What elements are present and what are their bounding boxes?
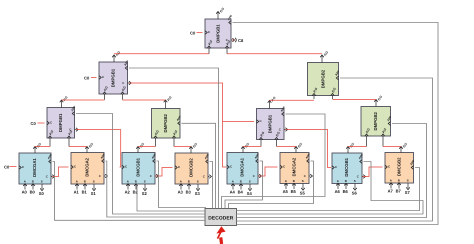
svg-text:B: B xyxy=(398,178,400,182)
svg-text:DMCGB1: DMCGB1 xyxy=(136,157,141,176)
svg-text:A1: A1 xyxy=(74,190,80,195)
svg-text:S4: S4 xyxy=(247,191,253,196)
wire APP decoder to U9 xyxy=(76,114,205,215)
wire Cout b0 to Cin b1 xyxy=(52,167,68,177)
svg-text:B: B xyxy=(135,179,137,183)
svg-text:C0: C0 xyxy=(4,165,10,170)
svg-text:DMCGB1: DMCGB1 xyxy=(344,157,349,176)
svg-text:S3: S3 xyxy=(195,191,201,196)
svg-text:DMCGA1: DMCGA1 xyxy=(240,157,245,176)
svg-text:C0: C0 xyxy=(84,76,90,81)
wire PG b7 to U12 xyxy=(383,146,401,148)
svg-text:B7: B7 xyxy=(396,189,402,194)
svg-text:S2: S2 xyxy=(142,191,148,196)
svg-text:A6: A6 xyxy=(335,189,341,194)
svg-text:A3: A3 xyxy=(178,190,184,195)
svg-text:B: B xyxy=(345,179,347,183)
wire APP decoder to b2 xyxy=(157,161,207,208)
wire C6 from U11 to b6 xyxy=(285,130,331,168)
svg-text:DMPGB1: DMPGB1 xyxy=(268,114,273,133)
wire APP decoder to b7 xyxy=(237,168,420,211)
svg-text:S: S xyxy=(41,179,43,183)
svg-text:B0: B0 xyxy=(30,190,36,195)
wire PG b3 to U10 xyxy=(174,146,191,148)
svg-text:DMCGA2: DMCGA2 xyxy=(85,157,90,176)
wire PG U10 to U13 xyxy=(123,99,166,101)
svg-text:DMPGB1: DMPGB1 xyxy=(58,113,63,132)
svg-text:A4: A4 xyxy=(230,190,236,195)
block U12 DMPGB2 xyxy=(361,94,393,146)
svg-text:S6: S6 xyxy=(352,190,358,195)
block U10 DMPGB2 xyxy=(152,95,183,147)
wire C2 from U9 to b2 xyxy=(76,130,121,167)
svg-text:S: S xyxy=(197,179,199,183)
wire PG b2 to U10 xyxy=(138,146,156,148)
svg-text:B5: B5 xyxy=(291,189,297,194)
svg-text:DMCGB2: DMCGB2 xyxy=(189,158,194,177)
cell U7 DMCGB1 xyxy=(332,142,365,196)
svg-text:DMPGB2: DMPGB2 xyxy=(163,113,168,132)
svg-text:B: B xyxy=(32,179,34,183)
wire PG U12 to U14 xyxy=(333,99,377,101)
decoder U16 xyxy=(205,209,237,226)
decoder enable red arrow xyxy=(216,226,225,244)
svg-text:DMCGB2: DMCGB2 xyxy=(396,157,401,176)
svg-text:C8: C8 xyxy=(238,38,244,43)
wire PG U11 to U14 xyxy=(270,99,315,101)
svg-text:B: B xyxy=(240,179,242,183)
wire APP decoder to U13 xyxy=(129,68,219,209)
wire S2 tap to decoder xyxy=(137,185,205,212)
svg-text:DMCGA1: DMCGA1 xyxy=(32,158,37,177)
svg-text:S: S xyxy=(249,179,251,183)
wire APP decoder to U10 xyxy=(182,123,216,208)
svg-text:B3: B3 xyxy=(186,190,192,195)
svg-text:B: B xyxy=(84,179,86,183)
wire PG b1 to U9 xyxy=(69,146,87,148)
svg-text:C0: C0 xyxy=(31,121,37,126)
wire Cout b2 to Cin b3 xyxy=(155,168,172,177)
cell U8 DMCGB2 xyxy=(385,142,416,195)
svg-text:DECODER: DECODER xyxy=(208,216,234,222)
cell U2 DMCGA2 xyxy=(71,142,107,196)
wire APP decoder to b6 xyxy=(237,162,424,215)
output C8 from U15 xyxy=(232,39,234,41)
svg-text:B6: B6 xyxy=(343,189,349,194)
wire C4 from U13 to b4 and U11 xyxy=(129,83,226,167)
wire PG U14 to U15 xyxy=(227,53,322,55)
wire APP decoder to b4 xyxy=(225,161,263,209)
svg-text:DMPGB1: DMPGB1 xyxy=(215,24,220,43)
svg-text:A7: A7 xyxy=(388,189,394,194)
svg-text:B2: B2 xyxy=(133,190,139,195)
svg-text:S: S xyxy=(407,178,409,182)
svg-text:A0: A0 xyxy=(22,190,28,195)
svg-text:B: B xyxy=(188,179,190,183)
wire APP decoder to b5 xyxy=(229,161,314,209)
svg-text:S1: S1 xyxy=(91,191,97,196)
wire APP decoder to U14 xyxy=(237,78,433,221)
wire PG U9 to U13 xyxy=(62,99,105,101)
svg-text:S7: S7 xyxy=(405,190,411,195)
cell U6 DMCGA2 xyxy=(280,142,312,196)
svg-text:S5: S5 xyxy=(300,190,306,195)
cell U1 DMCGA1 xyxy=(19,142,54,196)
svg-text:S0: S0 xyxy=(39,191,45,196)
svg-text:S: S xyxy=(354,179,356,183)
wire PG b5 to U11 xyxy=(277,146,297,148)
svg-text:DMPGB2: DMPGB2 xyxy=(320,69,325,88)
svg-text:DMCGA2: DMCGA2 xyxy=(292,157,297,176)
wire Cout b6 to Cin b7 xyxy=(362,167,382,177)
cell U4 DMCGB2 xyxy=(175,142,211,196)
wire PG b6 to U12 xyxy=(348,146,367,148)
svg-text:C0: C0 xyxy=(190,31,196,36)
svg-text:DMPGB2: DMPGB2 xyxy=(373,111,378,130)
svg-text:S: S xyxy=(93,179,95,183)
block U13 DMPGB1 xyxy=(99,50,131,100)
wire PG b0 to U9 xyxy=(35,146,50,148)
block U14 DMPGB2 xyxy=(308,50,341,99)
cell U5 DMCGA1 xyxy=(227,142,261,196)
wire APP decoder to U11 xyxy=(222,114,326,209)
svg-text:B4: B4 xyxy=(238,190,244,195)
block U9 DMPGB1 xyxy=(47,95,78,147)
svg-text:A5: A5 xyxy=(283,189,289,194)
wire PG U13 to U15 xyxy=(114,53,209,55)
svg-text:S: S xyxy=(302,179,304,183)
wire APP decoder to U15 root xyxy=(233,23,439,225)
svg-text:A2: A2 xyxy=(125,190,131,195)
svg-text:B: B xyxy=(293,179,295,183)
wire PG b4 to U11 xyxy=(243,146,261,148)
wire APP decoder to b3 xyxy=(210,162,213,209)
wire APP decoder to U12 xyxy=(237,124,427,218)
wire APP decoder to b1 xyxy=(106,161,206,217)
wire Cout b4 to Cin b5 xyxy=(258,167,277,176)
block U15 DMPGB1 xyxy=(205,6,235,53)
cell U3 DMCGB1 xyxy=(122,142,158,196)
svg-text:DMPGB1: DMPGB1 xyxy=(111,68,116,87)
svg-text:S: S xyxy=(144,179,146,183)
block U11 DMPGB1 xyxy=(257,95,288,146)
wire APP decoder to b0 xyxy=(53,162,206,221)
svg-text:B1: B1 xyxy=(82,190,88,195)
